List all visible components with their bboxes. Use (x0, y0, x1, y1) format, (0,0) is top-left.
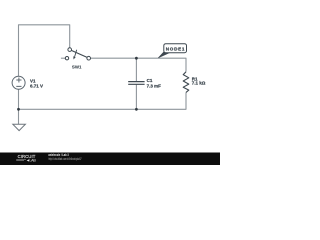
wire: switch left stub (open throw) (61, 57, 65, 59)
CircuitLab watermark bar (0, 153, 220, 166)
svg-text:SW1: SW1 (72, 64, 82, 69)
wire: switch right terminal to NODE1 net, down to R1 (91, 58, 186, 72)
junction dot at C1 bottom (135, 108, 138, 111)
wire: C1 top leg (135, 58, 137, 81)
svg-text:7.3 mF: 7.3 mF (147, 83, 162, 88)
junction dot at C1 top / NODE1 net (135, 57, 138, 60)
junction dot at V1 bottom rail (17, 108, 20, 111)
resistor R1 (183, 72, 189, 93)
svg-text:NODE1: NODE1 (166, 47, 185, 52)
svg-text:7.1 kΩ: 7.1 kΩ (192, 81, 206, 86)
svg-text:6.71 V: 6.71 V (30, 83, 43, 88)
svg-text:http://circuitlab.com/c/6r6wzk: http://circuitlab.com/c/6r6wzkyku67 (48, 157, 81, 161)
ground (13, 124, 26, 130)
wire: C1 bottom leg (135, 85, 137, 110)
node NODE1 callout (158, 44, 186, 58)
capacitor C1 (128, 82, 144, 85)
svg-text:◄LAB: ◄LAB (26, 159, 36, 163)
wire: top loop from V1 up and across to SW1 (19, 25, 70, 77)
wire: R1 bottom to bottom rail (19, 92, 187, 109)
voltage source V1 (12, 76, 25, 89)
switch SW1 (65, 48, 90, 60)
wire: V1 bottom down to bottom rail (18, 89, 20, 124)
